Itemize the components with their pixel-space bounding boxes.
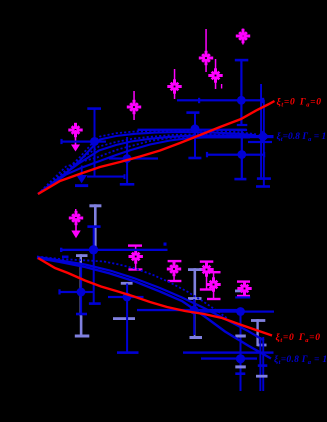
point D vertical error bar xyxy=(186,111,201,159)
star Sb5 xyxy=(237,281,251,295)
star S1 xyxy=(236,29,250,45)
star S2 xyxy=(199,51,213,65)
blue dotted curve bottom xyxy=(37,257,228,320)
star Sb1 xyxy=(129,249,143,263)
cluster diamond marker xyxy=(257,131,269,143)
stray cap xyxy=(164,243,167,246)
star Sb0 down arrow xyxy=(71,218,80,238)
star Sb2 error bar xyxy=(168,260,182,282)
star Sb3 xyxy=(199,262,213,276)
point P3 light caps xyxy=(113,282,135,320)
point P3 vertical error bar xyxy=(117,284,139,354)
point P1 xyxy=(77,288,86,297)
point P1 light extension xyxy=(75,316,90,338)
point P4 vertical error bar xyxy=(193,299,195,335)
svg-text:ξt=0.8Γa = 1: ξt=0.8Γa = 1 xyxy=(277,131,327,143)
star S6 xyxy=(68,123,82,137)
point P6 horizontal error bar xyxy=(201,357,257,359)
star S5 xyxy=(127,100,141,114)
star Sb5 error bar xyxy=(237,280,250,297)
upper limit arrow element xyxy=(75,166,126,188)
blue solid curve F top xyxy=(38,137,250,194)
point B vertical error bar xyxy=(87,107,101,176)
blue dotted curve E top xyxy=(38,136,250,194)
point A horizontal error bar xyxy=(177,98,265,103)
right double vertical bar 2 xyxy=(262,337,264,391)
point A xyxy=(237,96,246,105)
svg-text:ξt=0Γa=0: ξt=0Γa=0 xyxy=(277,97,322,109)
point P6 xyxy=(236,354,245,363)
blue solid curve D top xyxy=(38,135,250,194)
point B horizontal error bar xyxy=(60,139,106,144)
svg-text:ξt=0Γa=0: ξt=0Γa=0 xyxy=(276,332,321,344)
point D horizontal error bar xyxy=(138,129,247,131)
point P3 horizontal error bar xyxy=(108,296,144,298)
cluster vertical bar 1 xyxy=(257,84,271,180)
point P4 light outer bar xyxy=(188,268,202,339)
star S3 bar tail xyxy=(221,84,222,89)
point P2 light outer bar xyxy=(89,204,101,249)
point P6 horizontal bar long xyxy=(183,351,274,353)
right double vertical bar 1 xyxy=(259,337,261,391)
point P2 horizontal error bar xyxy=(60,248,168,252)
point P1 vertical error bar xyxy=(76,263,87,315)
point E xyxy=(237,150,246,159)
star Sb0 xyxy=(69,211,83,225)
point C vertical error bar xyxy=(120,137,135,186)
red curve bottom xyxy=(38,258,272,336)
point P1 horizontal error bar xyxy=(58,289,94,294)
blue solid curve b bottom xyxy=(37,258,271,359)
right cluster caps xyxy=(256,364,268,377)
light slate bar behind Sb5 xyxy=(235,290,247,293)
point C xyxy=(123,154,132,163)
point E vertical error bar xyxy=(234,129,247,181)
star Sb3 error bar xyxy=(200,260,214,290)
star S4 xyxy=(167,79,181,93)
blue dotted curve C top xyxy=(38,134,257,194)
point A vertical error bar xyxy=(235,59,249,126)
star Sb2 xyxy=(167,262,181,276)
red curve top xyxy=(38,101,275,194)
star S3 error bar xyxy=(215,59,217,89)
star S6 down arrow xyxy=(71,130,80,152)
star Sb1 error bar xyxy=(128,244,142,270)
star S2 error bar xyxy=(205,29,207,72)
point P2 xyxy=(89,245,98,254)
point E horizontal error bar xyxy=(206,152,265,157)
point P5 horizontal error bar xyxy=(200,311,274,313)
point P3 xyxy=(123,293,132,302)
point P5 xyxy=(236,307,245,316)
cluster horizontal bar thin xyxy=(248,141,272,143)
star S3 xyxy=(208,68,222,82)
point D xyxy=(191,124,200,133)
blue solid curve a bottom xyxy=(37,257,264,341)
point B xyxy=(90,137,99,146)
star Sb4 xyxy=(206,277,220,291)
star Sb0 error bar xyxy=(75,209,77,219)
star Sb4 error bar xyxy=(207,271,221,300)
cluster horizontal bar thick xyxy=(195,135,274,138)
cluster vertical bar 2 xyxy=(256,100,270,188)
point P1 light outer bar xyxy=(76,254,88,316)
point P4 horizontal error bar xyxy=(137,309,242,311)
blue dotted curve A top xyxy=(38,130,256,194)
star S4 error bar xyxy=(174,69,176,99)
point P4 xyxy=(190,306,199,315)
star S5 error bar xyxy=(133,91,135,120)
dark bar below Sb5 xyxy=(235,296,250,298)
point P5/P6 shared vertical bar xyxy=(235,312,246,392)
point C horizontal error bar xyxy=(109,157,158,159)
point P2 vertical error bar xyxy=(87,225,100,305)
blue solid curve B top xyxy=(38,132,256,194)
light slate vertical bar L2 xyxy=(251,319,267,346)
